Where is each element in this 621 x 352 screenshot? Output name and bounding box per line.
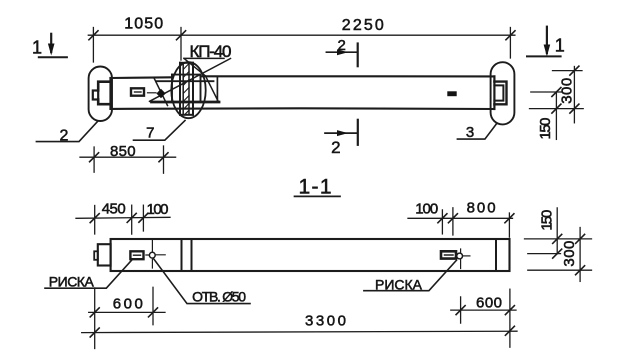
KP-40 label underline xyxy=(184,57,224,59)
column narrow section verticals xyxy=(180,63,193,115)
svg-text:100: 100 xyxy=(147,201,169,218)
leader hole otv50 xyxy=(153,258,250,303)
hole circle right xyxy=(457,253,463,259)
extension at riska right xyxy=(441,210,443,234)
section mark 2 top: arrow line xyxy=(326,51,357,53)
detail circle KP-40 xyxy=(171,62,205,118)
wide section top shoulder xyxy=(172,74,201,76)
top dimension line (1050 / 2250) xyxy=(88,34,515,36)
extension middle xyxy=(528,253,561,255)
right end tongue inner bracket xyxy=(494,85,503,100)
section mark 1 left: bar xyxy=(39,56,67,58)
extension bottom xyxy=(528,269,592,271)
ticks xyxy=(90,328,99,337)
svg-text:600: 600 xyxy=(113,296,143,313)
long extension at beam right end xyxy=(509,289,511,347)
extension at hole center xyxy=(152,287,154,324)
hatched web strip edges xyxy=(183,63,189,115)
column wide section xyxy=(172,75,201,103)
web hatching xyxy=(183,64,189,115)
beam body top view: top edge xyxy=(111,76,495,78)
tick middle xyxy=(177,31,186,40)
svg-text:850: 850 xyxy=(110,143,136,160)
top dims left (450/100): dim line xyxy=(76,217,170,218)
bottom dim 600 right: line xyxy=(451,309,516,311)
svg-text:150: 150 xyxy=(539,210,556,231)
leader riska left xyxy=(45,260,132,289)
extension line at right end xyxy=(509,28,511,59)
svg-text:РИСКА: РИСКА xyxy=(375,277,423,293)
right side dims (top view): extension top xyxy=(553,70,583,72)
long extension at beam left end xyxy=(94,288,96,349)
ticks xyxy=(456,306,465,315)
axis dash left of diamond xyxy=(148,92,157,94)
svg-text:3300: 3300 xyxy=(305,313,346,330)
KP-40 left leader xyxy=(184,58,206,76)
extension at hole xyxy=(142,205,144,231)
callout 3 underline xyxy=(457,124,496,139)
extension bottom xyxy=(530,108,584,110)
joint plate upper line xyxy=(156,80,214,82)
svg-text:300: 300 xyxy=(561,241,578,267)
riska mark left (plan) xyxy=(130,251,143,259)
svg-text:1-1: 1-1 xyxy=(299,176,332,199)
section mark 2 bottom: arrow line xyxy=(325,132,357,134)
section mark 1 left: arrow xyxy=(50,34,52,52)
svg-text:3: 3 xyxy=(466,124,474,141)
riska mark on beam (top view) xyxy=(131,88,144,95)
svg-text:1: 1 xyxy=(555,36,565,56)
beam outline (plan/section) xyxy=(111,239,510,271)
tick right xyxy=(506,31,515,40)
svg-text:7: 7 xyxy=(146,124,154,141)
ticks xyxy=(438,214,447,223)
riska left slot xyxy=(134,254,141,256)
svg-text:2: 2 xyxy=(331,138,340,157)
svg-text:300: 300 xyxy=(559,78,576,104)
hole left horizontal centerline dashes xyxy=(146,254,165,256)
svg-text:2: 2 xyxy=(60,127,69,144)
dim line 150 vertical xyxy=(556,208,558,254)
svg-text:800: 800 xyxy=(467,200,496,217)
gusset triangle hypotenuse xyxy=(206,76,219,102)
column top cap xyxy=(180,62,193,64)
svg-text:РИСКА: РИСКА xyxy=(49,273,95,289)
joint verticals at column xyxy=(182,239,192,271)
extension line at left end xyxy=(92,28,94,63)
section mark 1 right: arrow xyxy=(546,27,548,53)
joint plate lower thick line xyxy=(152,101,220,104)
left end tab xyxy=(93,91,98,100)
left end tongue profile xyxy=(98,82,110,105)
850 extension left xyxy=(93,147,95,172)
left end small block xyxy=(94,251,98,259)
right riska mark (top view, filled) xyxy=(447,91,456,96)
extension at riska xyxy=(131,205,133,234)
callout 7 underline xyxy=(134,121,186,141)
svg-text:100: 100 xyxy=(415,201,438,218)
850 tick left xyxy=(90,153,99,162)
section mark 2 bottom: cut stroke xyxy=(357,120,359,145)
ticks right-side dims xyxy=(570,66,579,75)
dim line 150 vertical xyxy=(555,92,557,139)
right end face vertical xyxy=(493,76,495,109)
riska mark right (plan) xyxy=(441,251,456,258)
beam body top view: bottom edge xyxy=(111,107,495,110)
svg-text:150: 150 xyxy=(537,118,554,140)
hole right vertical centerline xyxy=(460,249,462,269)
left end face vertical xyxy=(109,78,111,109)
left end middle block xyxy=(98,244,111,265)
right end cap outline (pos 3): stadium xyxy=(491,62,515,124)
gusset triangle vertical edge xyxy=(216,76,218,102)
extension at beam end xyxy=(94,206,96,235)
extension at hole right xyxy=(460,297,462,323)
ticks xyxy=(90,214,99,223)
right side dims (bottom view): extension top xyxy=(525,238,592,240)
bottom dim 600 left: line xyxy=(89,311,165,313)
svg-text:КП-40: КП-40 xyxy=(190,42,232,61)
svg-text:450: 450 xyxy=(102,201,126,218)
tick left xyxy=(89,31,98,40)
left end cap outline (pos 2): stadium xyxy=(89,67,112,122)
section mark 2 top: cut stroke xyxy=(357,44,359,67)
svg-text:600: 600 xyxy=(476,295,502,312)
hole right horizontal centerline dash xyxy=(463,255,470,257)
section title underline xyxy=(295,195,341,197)
svg-text:2: 2 xyxy=(338,37,346,54)
ticks xyxy=(553,234,562,243)
column bottom cap xyxy=(180,114,193,116)
extension at beam right end xyxy=(508,213,510,237)
right end tongue outer bracket xyxy=(494,82,506,105)
right end block line xyxy=(495,239,497,271)
svg-text:1: 1 xyxy=(32,37,42,57)
long leader diagonal from KP-40 label xyxy=(150,59,231,102)
dim line 300 vertical xyxy=(579,228,581,282)
leader riska right xyxy=(364,260,457,291)
riska right slot xyxy=(445,254,454,256)
hole circle left xyxy=(149,252,155,258)
callout 2 underline xyxy=(36,122,97,142)
svg-text:2250: 2250 xyxy=(342,17,384,34)
ticks xyxy=(90,308,99,317)
850 extension right xyxy=(163,146,165,173)
bottom dim 3300: line xyxy=(82,331,517,332)
850 tick right xyxy=(159,153,168,162)
section mark 1 right: bar xyxy=(527,55,561,57)
marker diamond on axis xyxy=(156,89,165,98)
hole left vertical centerline xyxy=(151,240,153,268)
extension at hole right xyxy=(452,208,454,235)
short crossing diagonal xyxy=(154,78,168,106)
dim line 300 vertical xyxy=(573,67,575,123)
svg-text:ОТВ. Ø50: ОТВ. Ø50 xyxy=(192,289,246,305)
extension middle xyxy=(531,91,562,93)
dimension 850: line xyxy=(80,156,176,158)
top dims right (100/800): dim line xyxy=(408,217,513,219)
riska mark slot xyxy=(135,91,142,93)
svg-text:1050: 1050 xyxy=(124,16,163,33)
extension line at KP-40 xyxy=(180,28,182,61)
